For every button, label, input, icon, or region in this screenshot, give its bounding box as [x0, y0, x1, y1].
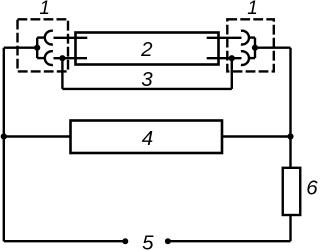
pin: lamp top-left — [54, 37, 88, 39]
switch 5 contact dot (right) — [165, 238, 171, 244]
cathode arc (left top) — [45, 31, 53, 45]
wire: left rail — [3, 48, 5, 242]
svg-text:2: 2 — [140, 38, 153, 61]
cathode arc (right top) — [241, 31, 249, 45]
wire: right rail upper — [289, 48, 291, 168]
switch 5 contact dot (left) — [122, 238, 128, 244]
pin: lamp bottom-right — [207, 57, 242, 59]
wire: left bottom arc lead — [37, 57, 45, 59]
wire: left holder to left rail — [4, 47, 37, 49]
wire: bottom left segment — [4, 240, 126, 242]
junction dot (left holder) — [34, 45, 40, 51]
wire: left top arc lead — [37, 36, 45, 38]
svg-text:3: 3 — [141, 68, 153, 91]
svg-text:4: 4 — [142, 127, 153, 150]
pin: lamp top-right — [207, 37, 242, 39]
lamp tube 2 — [76, 33, 219, 65]
junction dot (right rail / ballast row) — [287, 133, 293, 139]
wire: right holder to right rail — [255, 47, 291, 49]
ballast 4 — [71, 121, 223, 154]
wire 3 (horizontal) — [62, 88, 231, 90]
wire: bottom right segment — [168, 240, 291, 242]
wire: right bottom arc lead — [249, 57, 255, 59]
svg-text:5: 5 — [142, 231, 154, 252]
wire: left connector vertical — [36, 38, 38, 59]
junction dot (left rail / ballast row) — [1, 133, 7, 139]
cathode arc (left bottom) — [45, 51, 53, 65]
pin: lamp bottom-left — [54, 57, 88, 59]
lamp holder enclosure 1 (left, dashed) — [18, 19, 69, 71]
wire: right connector vertical — [254, 38, 256, 59]
resistor 6 — [283, 168, 301, 215]
junction dot (bottom-left pin) — [59, 55, 65, 61]
wire: ballast to right rail — [222, 135, 291, 137]
wire: right rail lower — [289, 215, 291, 241]
wire: right riser from wire 3 — [231, 58, 233, 89]
svg-text:6: 6 — [306, 176, 318, 199]
wire: left rail to ballast — [4, 135, 71, 137]
wire: left riser to wire 3 — [61, 58, 63, 89]
lamp holder enclosure 1 (right, dashed) — [227, 19, 273, 71]
junction dot (bottom-right pin) — [229, 55, 235, 61]
junction dot (right holder) — [252, 45, 258, 51]
svg-text:1: 1 — [39, 0, 50, 19]
wire: right top arc lead — [249, 36, 255, 38]
cathode arc (right bottom) — [241, 51, 249, 65]
svg-text:1: 1 — [247, 0, 258, 19]
